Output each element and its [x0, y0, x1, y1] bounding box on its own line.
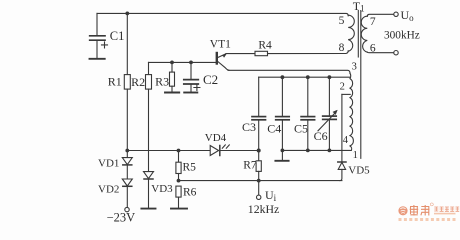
capacitor C5 — [301, 77, 315, 150]
svg-text:300kHz: 300kHz — [384, 29, 420, 41]
node top rail / R1 junction — [125, 12, 129, 16]
svg-text:C6: C6 — [314, 129, 328, 143]
node C4 top — [281, 75, 285, 79]
resistor R4 — [255, 51, 268, 55]
svg-text:2: 2 — [340, 82, 345, 93]
terminal -23V — [125, 207, 129, 211]
capacitor C4 — [276, 77, 290, 150]
transformer T1 right winding — [361, 16, 367, 52]
resistor R6 — [171, 186, 187, 209]
terminal Uo bottom — [394, 51, 398, 55]
transistor VT1 — [217, 53, 229, 70]
wire top rail — [97, 13, 348, 15]
svg-text:R6: R6 — [183, 187, 197, 199]
svg-text:C4: C4 — [267, 122, 281, 136]
wire lower row — [179, 180, 342, 182]
transformer core — [357, 11, 359, 58]
svg-text:R2: R2 — [131, 75, 145, 89]
wire tap pin4 — [342, 93, 350, 95]
svg-text:R4: R4 — [258, 40, 272, 52]
resistor R1 — [124, 13, 130, 150]
wire pin7 to terminal — [367, 14, 393, 16]
node C5 bottom — [306, 149, 310, 153]
svg-text:C5: C5 — [294, 122, 308, 136]
wire node A (VD4 row) — [127, 150, 258, 152]
svg-text:5: 5 — [339, 15, 345, 27]
node C6 bottom — [328, 149, 332, 153]
svg-text:R5: R5 — [183, 162, 197, 174]
svg-text:7: 7 — [370, 16, 376, 28]
resistor R2 — [146, 62, 152, 171]
diode VD4 — [210, 145, 229, 156]
svg-text:4: 4 — [343, 135, 349, 146]
capacitor C2 — [184, 62, 200, 92]
node R5 R6 — [177, 179, 181, 183]
resistor R3 — [165, 62, 179, 92]
resistor R5 — [176, 151, 181, 181]
svg-text:VD3: VD3 — [151, 183, 173, 195]
svg-text:8: 8 — [339, 42, 345, 54]
svg-text:VD1: VD1 — [98, 157, 119, 169]
node R1 bottom — [125, 149, 129, 153]
svg-text:VD2: VD2 — [98, 183, 119, 195]
svg-text:VD5: VD5 — [348, 165, 370, 177]
diode VD3 — [141, 172, 155, 209]
svg-text:VT1: VT1 — [210, 38, 231, 50]
wire collector to R4 — [226, 53, 255, 55]
node C3 R7 — [257, 149, 261, 153]
transformer T1 left winding — [348, 15, 354, 51]
capacitor C1 — [90, 13, 108, 58]
node R3 top — [170, 61, 174, 65]
svg-text:R1: R1 — [108, 75, 122, 89]
node C2 top — [189, 61, 193, 65]
ground C4 — [275, 150, 288, 160]
diode VD2 — [122, 179, 132, 207]
resistor R7 — [256, 151, 261, 181]
svg-text:C3: C3 — [242, 120, 256, 134]
wire R4 to T1 pin8 — [268, 51, 349, 54]
svg-text:C1: C1 — [110, 29, 125, 43]
watermark logo — [398, 203, 459, 221]
wire base bus — [149, 61, 216, 63]
svg-text:−23V: −23V — [107, 210, 136, 223]
node C6 top — [328, 75, 332, 79]
svg-text:R7: R7 — [243, 160, 257, 172]
diode VD5 — [338, 94, 346, 180]
terminal Uo top — [394, 12, 398, 16]
svg-text:R3: R3 — [155, 74, 169, 88]
node R7 bottom — [257, 179, 261, 183]
wire pin6 to terminal — [367, 51, 393, 54]
diode VD1 — [122, 151, 132, 180]
wire cap bottom bus — [282, 146, 351, 150]
lower winding L — [350, 73, 353, 146]
terminal Ui — [257, 181, 261, 200]
variable capacitor C6 — [318, 77, 337, 150]
svg-text:C2: C2 — [203, 72, 218, 87]
svg-text:Uo: Uo — [401, 8, 415, 23]
svg-text:6: 6 — [370, 42, 376, 54]
capacitor C3 — [252, 77, 266, 150]
wire emitter bus — [228, 70, 350, 73]
node R5 top — [177, 149, 181, 153]
node C4 bottom — [281, 149, 285, 153]
svg-text:12kHz: 12kHz — [248, 202, 279, 216]
wire cap top bus — [259, 76, 350, 78]
svg-text:3: 3 — [352, 62, 357, 73]
svg-text:VD4: VD4 — [205, 132, 227, 144]
node C5 top — [306, 75, 310, 79]
svg-text:1: 1 — [353, 150, 358, 161]
